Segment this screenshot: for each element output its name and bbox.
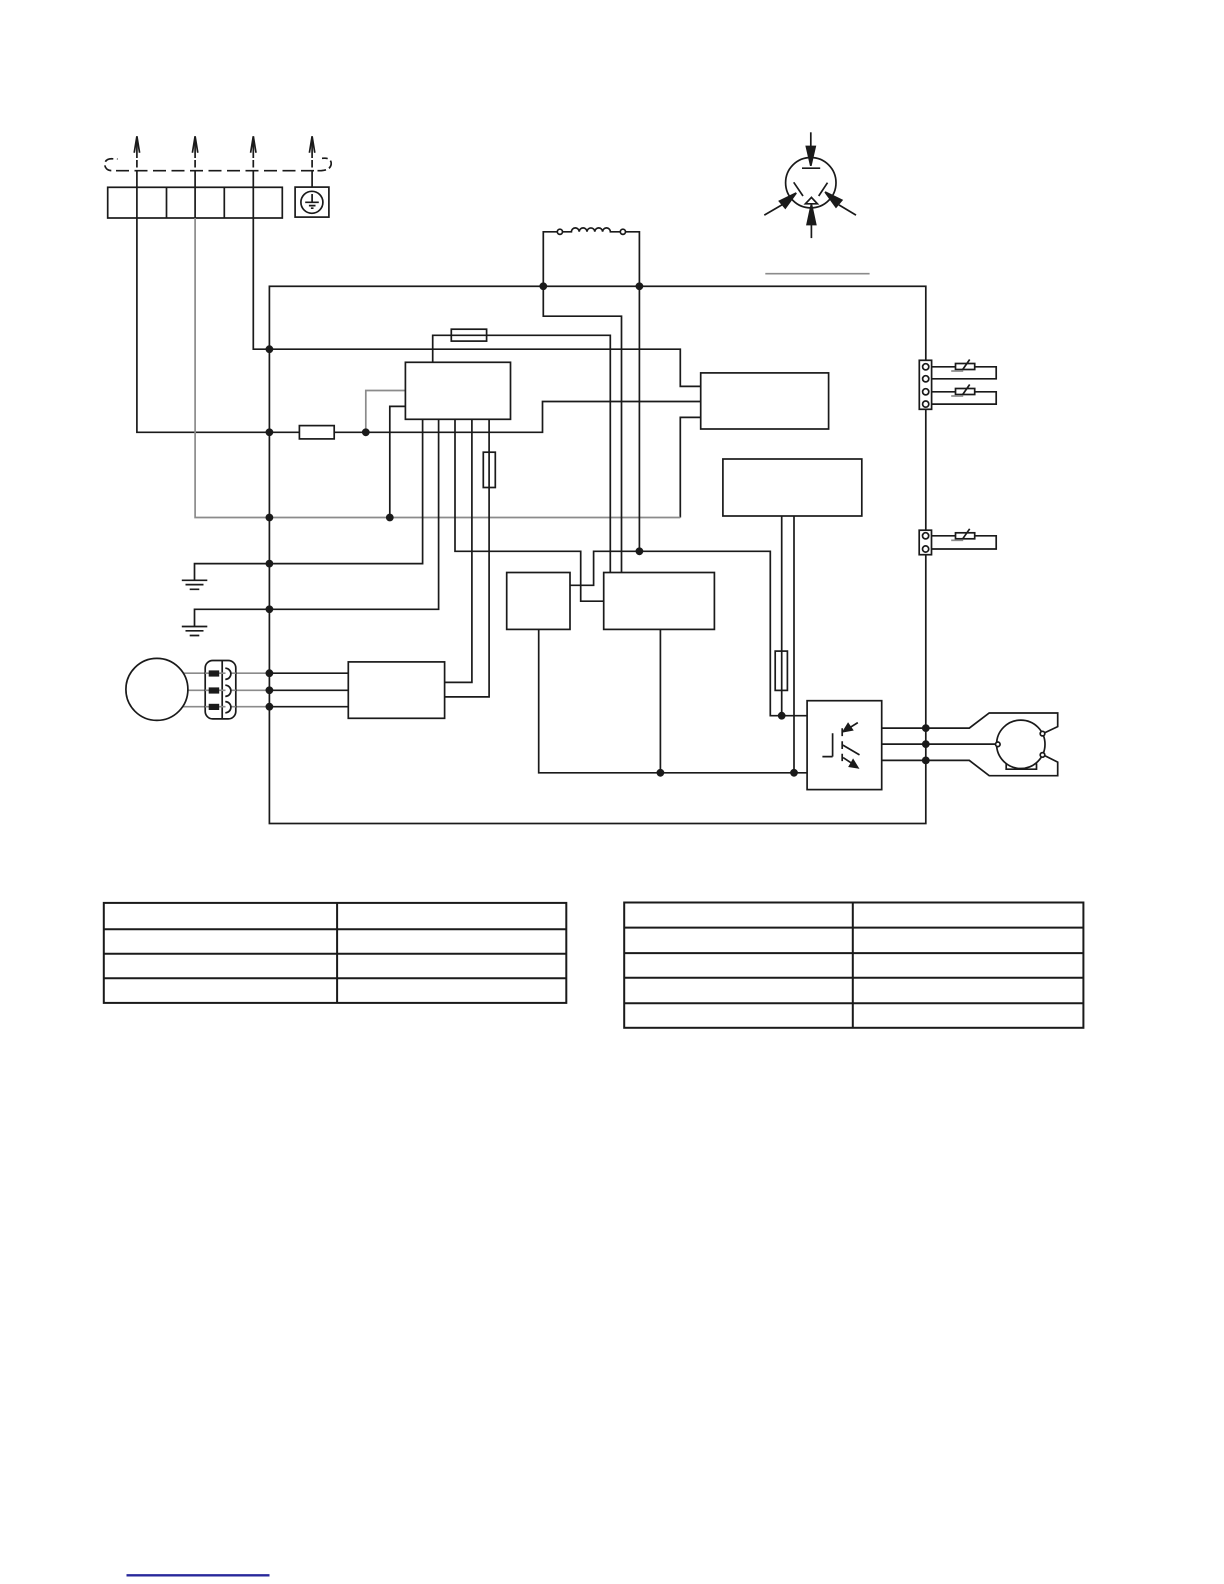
ground symbol 1 xyxy=(182,580,208,589)
wire arrow 4 (earth lead) xyxy=(311,137,313,159)
thermistor TH2 loop xyxy=(932,392,997,404)
compressor symbol left arrow xyxy=(764,205,782,215)
inductor loop riser right xyxy=(625,232,639,286)
inductor loop riser left xyxy=(543,232,557,286)
wire N (gray): terminal cell2 down and across xyxy=(195,218,680,518)
compressor symbol bottom arrow xyxy=(810,224,812,238)
junction dots xyxy=(266,282,930,776)
inductor connector pin right xyxy=(620,229,625,234)
compressor symbol (top right) circle xyxy=(786,158,836,208)
wire arrow 1 (dashed lead up from terminal L) xyxy=(136,137,138,159)
wire: main PCB left stub down to N bus xyxy=(390,406,406,517)
wire: main PCB top pin through fuse F2 xyxy=(433,335,611,572)
block A (sub module) xyxy=(507,573,570,630)
fan motor connector xyxy=(205,661,236,719)
wire: top bus right tap down to opto rail xyxy=(638,286,640,551)
compressor feed top prong xyxy=(926,713,1058,733)
wire L1: terminal cell1 down to fuse row xyxy=(137,218,300,432)
main control PCB block xyxy=(405,362,510,419)
cable boundary dashed line xyxy=(116,170,316,172)
compressor terminal pins xyxy=(996,742,1001,747)
compressor feed bottom prong xyxy=(926,755,1058,775)
parts table right xyxy=(624,903,1083,1028)
wire: fuse F1 output to PCB riser xyxy=(334,402,701,433)
wire: top bus tap down to PFC line xyxy=(543,286,621,572)
cable boundary left hook xyxy=(105,159,118,171)
wire: N riser to terminal PCB R1 xyxy=(680,417,700,517)
fuse F4 xyxy=(775,651,787,690)
compressor feed middle wire xyxy=(926,743,996,745)
wire: B-bottom to low rail xyxy=(659,629,661,772)
thermistor TH3 loop xyxy=(932,536,997,549)
wire: PCB pin5 through fuse F3 to fan driver xyxy=(445,419,490,697)
compressor symbol internals xyxy=(794,168,828,204)
compressor symbol top arrow xyxy=(810,132,812,147)
wire arrow 3 xyxy=(252,137,254,159)
aux PCB R2 xyxy=(723,459,862,516)
wire: PCB pin3 to block A/B rail xyxy=(455,419,604,601)
fuse F3 xyxy=(483,452,495,487)
wire arrow 2 xyxy=(194,137,196,159)
compressor body circle xyxy=(997,720,1045,768)
wire: R2 pin1 down through fuse F4 xyxy=(781,516,783,716)
fan motor wires (gray) xyxy=(183,673,270,707)
opto arrow in xyxy=(849,723,858,729)
inductor L coil xyxy=(563,228,621,232)
fuse F2 xyxy=(451,329,486,341)
connector pins (squares) xyxy=(209,670,220,710)
outer enclosure wire loop xyxy=(269,286,925,823)
ground symbol 2 xyxy=(182,627,208,636)
wire: PCB pin1 to ground xyxy=(195,419,423,580)
terminal block through-wires xyxy=(137,187,253,218)
wires: motor connector to fan driver xyxy=(269,673,348,707)
wire: PCB pin2 to ground xyxy=(195,419,439,626)
opto/driver block B3 xyxy=(807,701,882,790)
block B (sub module) xyxy=(604,573,715,630)
terminal PCB R1 xyxy=(701,373,829,429)
earth terminal circle symbol xyxy=(301,191,323,213)
opto dashed junction xyxy=(841,728,843,761)
connector sockets (arcs) xyxy=(225,668,231,713)
wire: block A out up and across to opto line xyxy=(570,551,807,715)
wire L2: terminal cell3 down xyxy=(253,218,269,349)
wire: R2 pin2 down to low rail xyxy=(793,516,795,773)
opto arrow out xyxy=(843,758,851,763)
connector pin links (gray) xyxy=(205,673,236,707)
wire: PCB pin4 to fan driver xyxy=(445,419,472,682)
thermistor TH1 loop xyxy=(932,367,997,379)
opto middle stroke xyxy=(843,745,860,755)
wire: live bus to terminal PCB R1 xyxy=(269,349,700,386)
inductor connector pin left xyxy=(557,229,562,234)
opto gate lead xyxy=(822,733,832,756)
earth terminal box xyxy=(295,187,329,217)
thermistor connector CN2 (2 pin) xyxy=(919,530,931,555)
compressor symbol right arrow xyxy=(839,205,856,215)
footer rule (blue) xyxy=(127,1574,270,1576)
thermistor connector CN1 (4 pin) xyxy=(919,360,931,409)
fan motor driver block xyxy=(348,662,444,718)
fuse F1 xyxy=(299,426,334,439)
compressor mount bracket xyxy=(1006,763,1036,769)
fan motor circle xyxy=(126,658,188,720)
wire (gray): junction to main PCB left pin xyxy=(366,391,406,433)
terminal block TB1 xyxy=(108,187,283,218)
compressor label underline (gray) xyxy=(765,273,869,275)
wires: opto outputs to compressor xyxy=(882,728,926,760)
cable boundary right hook xyxy=(318,158,332,171)
parts table left xyxy=(104,903,567,1003)
wire: low rail A-bottom to opto block xyxy=(539,629,807,772)
